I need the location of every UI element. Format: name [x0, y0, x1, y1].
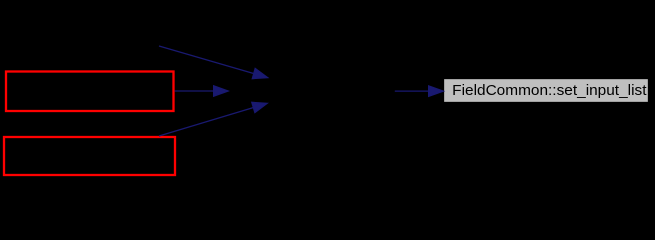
node FieldCommon::set_input_list (current, gray) — [444, 79, 649, 103]
caller node box R2 (red, truncated) — [4, 137, 175, 175]
svg-text:caller_one: caller_one — [54, 82, 123, 99]
caller node (top, untruncated, invisible black on black) — [10, 34, 158, 59]
edge: R1 -> central node — [175, 86, 229, 97]
central node (invisible black on black) — [229, 78, 395, 103]
svg-text:read_init_condition: read_init_condition — [21, 37, 147, 54]
edge: central node -> FieldCommon::set_input_list — [395, 86, 444, 97]
edge: R2 -> central node — [159, 102, 268, 136]
svg-text:FieldCommon::set_input_list: FieldCommon::set_input_list — [452, 82, 647, 99]
caller node box R1 (red, truncated) — [6, 72, 174, 112]
svg-text:caller_two: caller_two — [55, 147, 123, 164]
edge: top caller -> central node — [159, 46, 268, 79]
svg-text:central_node: central_node — [269, 83, 356, 100]
